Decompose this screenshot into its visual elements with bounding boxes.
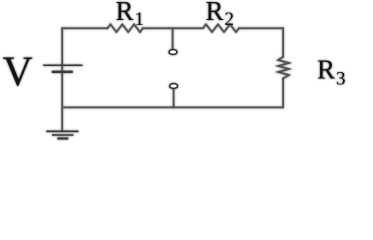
crisp pass of circuit [3, 0, 346, 139]
blurred halo pass of circuit [3, 0, 346, 139]
